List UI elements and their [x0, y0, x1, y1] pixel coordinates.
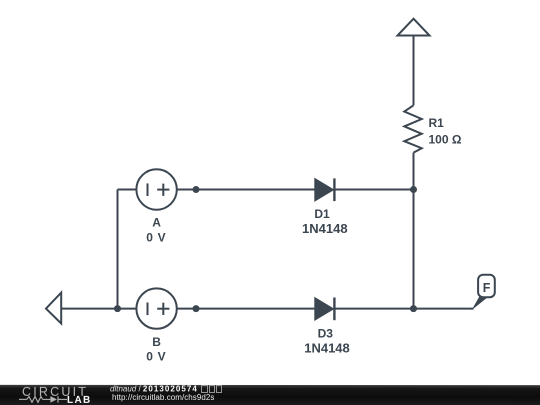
wire: D3 cathode to flag F: [334, 308, 473, 310]
svg-text:1N4148: 1N4148: [304, 340, 350, 355]
svg-text:0 V: 0 V: [146, 350, 166, 364]
resistor R1: [404, 105, 421, 152]
diode D3: [315, 299, 332, 320]
svg-text:F: F: [483, 281, 491, 295]
junction: node right of source B: [193, 305, 200, 312]
wire: left rail to source A: [118, 189, 137, 191]
wire: D1 cathode to node: [334, 189, 413, 191]
svg-text:A: A: [152, 216, 161, 230]
wire: top pointer to R1: [413, 36, 415, 106]
net pointer (left arrow, bottom-left net): [46, 293, 61, 324]
wire: source A to diode D1: [177, 189, 315, 191]
svg-text:100 Ω: 100 Ω: [429, 133, 462, 147]
svg-text:B: B: [152, 335, 161, 349]
flag F tail: [472, 297, 488, 311]
net pointer (up arrow, top net): [398, 19, 430, 36]
svg-text:0 V: 0 V: [146, 231, 166, 245]
junction: D1 cathode / R1 node: [410, 186, 417, 193]
svg-text:R1: R1: [429, 116, 445, 130]
footer credit text: [110, 385, 222, 403]
CircuitLab logo: [0, 385, 110, 405]
flag F body: [478, 275, 495, 298]
svg-text:1N4148: 1N4148: [302, 221, 348, 236]
wire: left rail vertical (A to B row): [117, 190, 119, 309]
junction: node right of source A: [193, 186, 200, 193]
svg-text:D3: D3: [318, 327, 334, 341]
wire: source B to diode D3: [177, 308, 315, 310]
wire: left pointer to source B: [61, 308, 136, 310]
voltage source A: [136, 169, 176, 209]
svg-text:D1: D1: [314, 207, 330, 221]
diode D1: [315, 179, 332, 200]
junction: D3 cathode / output node F: [410, 305, 417, 312]
footer bar: [0, 385, 540, 405]
junction: left rail / source B row: [114, 305, 121, 312]
svg-text:LAB: LAB: [67, 395, 92, 405]
wire: R1 down through node to bottom node: [413, 153, 415, 309]
voltage source B: [136, 288, 176, 328]
